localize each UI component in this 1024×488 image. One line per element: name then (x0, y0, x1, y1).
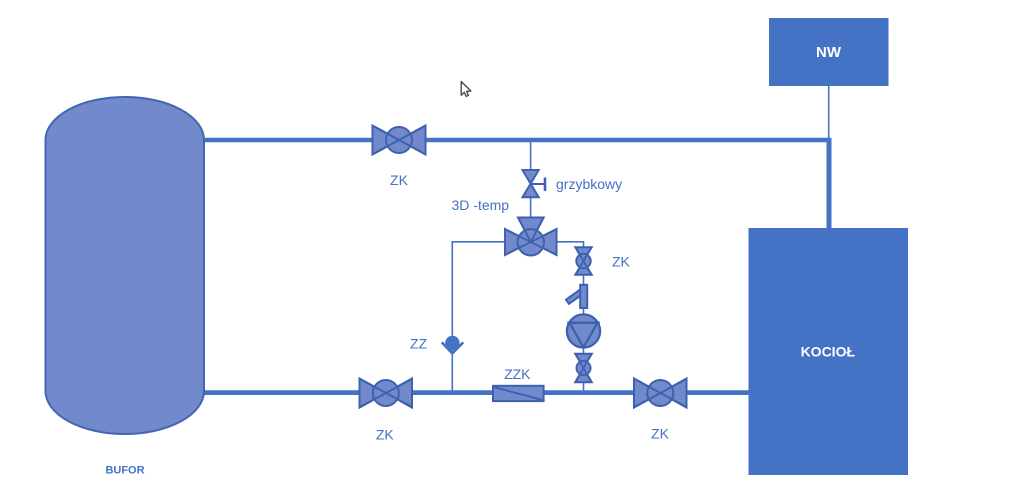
svg-text:NW: NW (816, 44, 842, 61)
svg-text:ZZ: ZZ (410, 336, 428, 352)
svg-text:KOCIOŁ: KOCIOŁ (801, 344, 856, 360)
svg-text:ZK: ZK (390, 172, 409, 188)
svg-text:ZK: ZK (376, 427, 395, 443)
svg-text:ZZK: ZZK (504, 366, 531, 382)
svg-text:BUFOR: BUFOR (105, 465, 144, 477)
svg-text:ZK: ZK (651, 426, 670, 442)
svg-text:grzybkowy: grzybkowy (556, 176, 622, 192)
svg-text:3D -temp: 3D -temp (452, 197, 510, 213)
svg-text:ZK: ZK (612, 254, 631, 270)
